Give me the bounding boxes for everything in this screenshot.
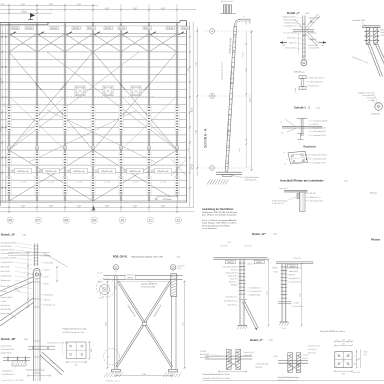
frame detail callout circles [97,273,120,365]
svg-text:240: 240 [91,349,93,352]
Detail I post and beam junction [293,14,320,60]
svg-text:Windverband in Achse C/07–C/08: Windverband in Achse C/07–C/08 [132,256,164,259]
svg-text:Rd20: Rd20 [274,356,278,358]
svg-text:2.49: 2.49 [188,68,190,71]
Detail III labels [1,345,14,355]
svg-text:„II“: „II“ [107,357,110,359]
svg-text:Detail „V“: Detail „V“ [250,338,264,342]
Detail II right side labels [41,255,56,307]
svg-text:Leimbinder: Leimbinder [177,266,185,268]
svg-text:kräfte (Sog) n. DIN 1055 zu si: kräfte (Sog) n. DIN 1055 zu sichern, [202,222,237,225]
right dimension chains of plan [188,22,193,207]
section A-A title [204,128,208,148]
svg-text:2 Schrauben M12: 2 Schrauben M12 [283,20,296,22]
svg-text:IPE160: IPE160 [242,52,244,57]
svg-text:IPE 160: IPE 160 [313,124,319,126]
svg-text:Zugstab Rd 20: Zugstab Rd 20 [1,275,12,278]
svg-text:Kontermutter: Kontermutter [1,279,11,282]
Detail I axis bubble 01 [301,57,307,66]
svg-text:300: 300 [342,373,345,375]
svg-text:„I“: „I“ [102,288,104,290]
svg-text:41: 41 [176,147,178,149]
svg-text:Hammerkopf-: Hammerkopf- [309,44,320,47]
svg-text:Kn. 06: Kn. 06 [98,273,103,275]
svg-text:Anschluß Pfetten am Leimbinder: Anschluß Pfetten am Leimbinder [280,179,325,183]
svg-text:IPE270 n.St: IPE270 n.St [158,170,169,173]
frame diagonal tension rods [116,281,173,368]
svg-text:M20 DIN 1480: M20 DIN 1480 [1,309,11,311]
svg-text:IPE270 n.St: IPE270 n.St [102,170,113,173]
svg-text:06: 06 [8,219,12,223]
svg-text:41.60: 41.60 [21,11,27,13]
glulam bracing connection detail top right [352,19,381,44]
svg-text:a = 2.49: a = 2.49 [132,182,138,184]
sheet border line bottom right [203,380,384,382]
svg-text:Leimbinder: Leimbinder [309,32,318,35]
panel member label boxes horizontal [12,168,172,173]
svg-text:Schnitt 1 - 1: Schnitt 1 - 1 [294,106,310,110]
svg-text:12: 12 [176,219,180,223]
svg-text:Lasche 90×10: Lasche 90×10 [1,345,12,348]
svg-text:IPE160: IPE160 [167,28,173,30]
svg-text:4 Schrauben M12: 4 Schrauben M12 [1,252,14,255]
svg-text:90×10: 90×10 [44,276,49,279]
Fusspunkte bottom dimension rows [334,370,360,375]
svg-text:25.29: 25.29 [192,108,194,112]
bottom dimension lines of plan [0,205,194,212]
svg-text:Durchlaufwirkung der Pfetten: Durchlaufwirkung der Pfetten [202,224,231,227]
Detail III lower labels [2,364,23,383]
Fusspunkte caption [320,330,345,333]
svg-text:Detail „II“: Detail „II“ [1,233,16,237]
svg-text:Ø 18: Ø 18 [364,355,367,357]
svg-text:240: 240 [75,364,78,366]
frame top chord [104,275,183,288]
Detail V left labels [200,351,254,380]
svg-text:2 Schr. M16: 2 Schr. M16 [244,355,253,357]
svg-text:±0.00: ±0.00 [282,328,286,330]
svg-text:b: b [284,152,285,154]
svg-text:IPE 160: IPE 160 [310,193,316,195]
Detail I section a-a sub-detail [294,71,324,94]
svg-text:IPE 160: IPE 160 [231,270,237,272]
top purlin label boxes [11,26,189,30]
svg-text:RSt700: RSt700 [256,261,262,264]
frame right dimension [183,281,186,370]
Detail IV right column IPE280 [281,264,288,323]
svg-text:Lasche 243×90×10: Lasche 243×90×10 [141,283,157,286]
svg-text:IPE270 n.St: IPE270 n.St [46,170,57,173]
svg-text:a: a [295,92,296,94]
Anschluss Pfetten am Leimbinder title [280,179,348,183]
section A-A member annotation text [221,37,234,139]
section A-A lower grid bubble [189,165,193,169]
Detail II dimension ticks [27,252,29,309]
svg-text:4 Schrauben M16: 4 Schrauben M16 [141,286,155,288]
section A-A left dimension line [195,27,198,176]
svg-text:C: C [211,166,213,170]
Detail I leader labels right [309,18,320,50]
svg-text:2.49: 2.49 [188,148,190,151]
svg-text:3.47: 3.47 [106,322,108,326]
Detail IV left column base [237,326,247,330]
svg-text:Winkel 70×7 m.: Winkel 70×7 m. [310,196,322,199]
Detail IV left label stack [222,267,240,307]
Fusspunkt caption and base plate detail [63,328,93,367]
svg-text:IPE160: IPE160 [105,28,111,30]
Detail I load arrows [280,41,326,47]
svg-text:7.10: 7.10 [195,130,197,133]
svg-text:1:10: 1:10 [269,340,273,342]
svg-text:Leimbinder 12/96: Leimbinder 12/96 [352,19,365,22]
svg-text:Fußplatte 240×240×12 m. 4 An-: Fußplatte 240×240×12 m. 4 An- [63,328,87,331]
svg-text:Bolzen Rd20: Bolzen Rd20 [200,354,209,356]
Detail II diagonal rods [0,277,33,326]
Detail II pin connection [30,268,44,281]
Detail IV middle dimension line [267,259,270,327]
north arrow symbol [28,13,35,19]
right edge clipped labels [381,29,384,38]
svg-text:07: 07 [36,219,40,223]
svg-text:Blech d=30: Blech d=30 [353,372,361,374]
Detail IV left roof lines [214,242,268,264]
Schnitt 1-1 title [294,106,320,110]
svg-text:4 Schrauben M16: 4 Schrauben M16 [362,95,375,97]
svg-text:41: 41 [92,147,94,149]
svg-text:a = 2.49: a = 2.49 [20,182,26,184]
svg-text:bzw. 35/207, 1% Gefälle vorhan: bzw. 35/207, 1% Gefälle vorhanden [202,214,237,217]
Detail IV left diagonal brace [239,300,258,331]
svg-text:Blech 120×220×10: Blech 120×220×10 [313,154,327,157]
svg-text:C: C [191,166,193,169]
svg-text:41: 41 [148,147,150,149]
frame left column [115,276,172,370]
svg-text:Schweißn. a=4: Schweißn. a=4 [44,305,55,307]
svg-text:IPE160: IPE160 [73,28,79,30]
Detail III beam with anchor block [3,356,30,366]
svg-text:siehe Detail „II“: siehe Detail „II“ [245,178,257,181]
svg-text:2 U 160: 2 U 160 [293,303,299,305]
svg-text:Bindergang 1 ±7/1 m: Bindergang 1 ±7/1 m [221,62,224,80]
svg-text:Rd 95: Rd 95 [98,282,103,284]
Draufsicht title [304,146,317,149]
svg-text:Lasche: Lasche [303,354,308,356]
svg-text:Detail „I“: Detail „I“ [287,11,300,15]
svg-text:300: 300 [359,358,361,361]
Detail III side connection drawing [26,342,68,377]
svg-text:Detail „IV“: Detail „IV“ [252,232,266,236]
svg-text:IPE160: IPE160 [119,28,125,30]
svg-text:Lasche: Lasche [44,270,50,272]
frame base plates and foundation [104,370,181,383]
Detail IV right labels [272,267,301,284]
svg-text:IPE160: IPE160 [144,28,150,30]
svg-text:1:10: 1:10 [316,107,320,109]
svg-text:Knotenblech: Knotenblech [44,294,53,297]
skylight boxes [60,86,155,97]
svg-text:Blech 160×160×12: Blech 160×160×12 [310,77,324,80]
diagonal brace labels top bay [11,32,185,35]
svg-text:Bolzen Ø30: Bolzen Ø30 [1,267,10,269]
svg-text:Detail „III“: Detail „III“ [1,337,16,341]
svg-text:5.81: 5.81 [142,374,146,376]
svg-text:08: 08 [64,219,68,223]
svg-text:A: A [211,29,213,33]
svg-text:IPE 160 Pfette: IPE 160 Pfette [1,245,12,248]
svg-text:Pfosten: Pfosten [371,239,381,242]
top bay X bracing [0,34,187,52]
svg-text:01: 01 [302,61,306,65]
svg-text:4 Schrauben M16: 4 Schrauben M16 [313,158,326,161]
POS Windverband title [113,256,180,259]
windverband label box top right of plan [155,197,178,201]
svg-text:Dach u. Pfetten sind gegen Abh: Dach u. Pfetten sind gegen Abhebe- [202,219,237,222]
svg-text:150: 150 [355,363,357,366]
section A-A right dimension line [239,30,253,171]
svg-text:a = 2.49: a = 2.49 [48,182,54,184]
svg-text:2 Schrauben M12: 2 Schrauben M12 [310,199,323,202]
svg-text:4 Schrauben M12: 4 Schrauben M12 [310,81,323,84]
Detail V title [250,338,273,342]
svg-text:Kopfplatte 160×10: Kopfplatte 160×10 [1,249,15,252]
svg-text:Trapezblech 40/183: Trapezblech 40/183 [313,120,328,123]
svg-text:Fußpunkt Windverband quer,: Fußpunkt Windverband quer, [278,376,300,379]
svg-text:IPE160: IPE160 [272,268,277,270]
svg-text:12/96 n.St.: 12/96 n.St. [309,38,318,41]
svg-text:14.05: 14.05 [250,98,252,102]
svg-text:n. Stat. Pos. 4.2: n. Stat. Pos. 4.2 [272,202,284,205]
svg-text:Ausbildung der Dachfläche:: Ausbildung der Dachfläche: [202,208,234,211]
svg-text:5.81: 5.81 [246,138,248,141]
svg-text:2.49: 2.49 [1,78,3,81]
svg-text:schraube M16: schraube M16 [309,47,320,50]
plan outline left and right edges [0,22,186,205]
svg-text:1: 1 [299,142,300,144]
svg-text:Leimbinder 12/96: Leimbinder 12/96 [313,134,326,137]
Detail IV right roof lines [276,258,313,269]
svg-text:Knotenblech 240×240×12 m. 4 An: Knotenblech 240×240×12 m. 4 Anker [203,377,231,380]
svg-text:Bolzen: Bolzen [99,298,104,300]
svg-text:IPE160: IPE160 [182,28,188,30]
svg-text:Rd 20: Rd 20 [44,284,49,286]
Detail IV left column IPE280 [239,259,246,325]
svg-text:75: 75 [336,340,338,342]
right edge clipped heading [370,192,381,242]
Detail IV right far dimension line [300,263,303,327]
svg-text:ker M16, Knotenblech n. Stat.: ker M16, Knotenblech n. Stat. [63,331,86,334]
Detail I leader labels left [283,16,302,50]
svg-text:a = 2.49: a = 2.49 [104,182,110,184]
svg-text:Fußpunkte IPE280 am ±0.00 m: Fußpunkte IPE280 am ±0.00 m [320,330,345,333]
Detail IV right column base [279,322,289,330]
svg-text:IPE160: IPE160 [12,28,18,30]
svg-text:IPE 280: IPE 280 [289,275,295,277]
Detail IV left right-side labels [247,263,262,297]
svg-text:2.76: 2.76 [267,291,269,294]
svg-text:2 Laschen 90×10: 2 Laschen 90×10 [1,261,14,264]
survey marker under axis 09 [92,206,95,210]
labels between Detail V and Fusspunkte [308,345,321,355]
svg-text:09: 09 [92,219,96,223]
svg-text:10: 10 [120,219,124,223]
svg-text:75: 75 [355,355,357,357]
Fusspunkte right dimension column [355,350,369,369]
frame axis bubbles 01 02 [113,265,185,276]
Detail V middle labels [256,364,269,370]
frame right glulam column hatched [171,274,177,370]
Draufsicht plate plan view [284,151,327,165]
svg-text:IPE270 n.St: IPE270 n.St [74,170,85,173]
left dimension chains of plan [1,25,7,202]
svg-text:IPE270 n.St: IPE270 n.St [130,170,141,173]
svg-text:Hülse Rd 95: Hülse Rd 95 [1,271,10,273]
svg-text:a = 2.49: a = 2.49 [76,182,82,184]
svg-text:POS. OG-V1: POS. OG-V1 [113,256,128,259]
svg-text:Trapezblech 40/183: Trapezblech 40/183 [222,267,236,269]
purlin lines [0,37,186,196]
svg-text:Spannschloß: Spannschloß [1,305,10,307]
svg-text:300: 300 [342,343,345,345]
bracing rods to lower right [352,44,384,76]
Detail III title [1,337,29,341]
Anschluss Pfetten drawing [272,188,323,212]
svg-text:Knotenblech 240×12: Knotenblech 240×12 [1,257,17,260]
svg-text:41: 41 [8,147,10,149]
rod sleeve circle detail [98,282,110,300]
svg-text:Pfosten 16/16: Pfosten 16/16 [1,285,11,288]
Detail V left drawing [205,349,252,369]
svg-text:5.81: 5.81 [246,68,248,71]
svg-text:Zugband Rd20: Zugband Rd20 [309,18,320,20]
svg-text:B: B [211,94,213,98]
svg-text:DIN 7990: DIN 7990 [256,367,263,369]
svg-text:IPE160: IPE160 [51,28,57,30]
svg-text:IPE160: IPE160 [26,28,32,30]
plan outline top edge [0,21,187,26]
svg-text:6.45: 6.45 [195,62,197,65]
roof plan top dimension lines [0,4,196,11]
Detail II leader labels left column [1,242,33,294]
svg-text:1:10: 1:10 [273,234,277,236]
svg-text:4 Schr. M12: 4 Schr. M12 [287,38,296,40]
Detail II post member [34,268,40,381]
roof plan second dimension line with overall length [0,11,52,14]
Detail V right drawing [274,353,309,382]
Schnitt 1-1 purlin on glulam drawing [281,119,328,144]
kopfplatte mini detail right edge [358,92,383,116]
svg-text:ist zu beachten.: ist zu beachten. [202,227,218,230]
svg-text:Trapezblech 40/183: Trapezblech 40/183 [1,242,16,245]
svg-text:Schnitt a-a: Schnitt a-a [294,71,305,74]
svg-text:41: 41 [64,147,66,149]
section A-A column base and foundation [207,172,259,184]
Detail II extra left labels [1,297,13,315]
main wind bracing diagonals [9,52,187,201]
svg-text:OG3 Windv.: OG3 Windv. [163,199,173,201]
column axis numbers 06 to 12 [7,217,181,223]
svg-text:4 Schrauben M12: 4 Schrauben M12 [313,130,326,133]
Detail IV title [252,232,277,236]
svg-text:Steife 60×10: Steife 60×10 [310,85,320,88]
section A-A roof hatch block at top [220,4,236,13]
svg-text:2 Schr. M16: 2 Schr. M16 [44,262,53,265]
svg-text:b: b [285,164,286,166]
svg-text:IPE270 n.St: IPE270 n.St [18,170,29,173]
svg-text:Kopfplatte 160×10: Kopfplatte 160×10 [313,127,327,130]
svg-text:2x U160: 2x U160 [200,351,206,353]
svg-text:Abstützg.: Abstützg. [370,192,378,195]
Detail II title [1,233,27,237]
secondary panel labels [20,182,166,184]
plan column gridlines [9,23,177,201]
Detail IV right lower beam stub [278,302,303,308]
Ausbildung der Dachflaeche text block [202,208,237,230]
svg-text:RSt700: RSt700 [227,261,233,264]
svg-text:41: 41 [120,147,122,149]
svg-text:2 Schr.: 2 Schr. [381,35,384,37]
svg-text:Zugstab Rd 20: Zugstab Rd 20 [1,352,12,355]
svg-text:Leimbinder 12/96: Leimbinder 12/96 [313,162,326,165]
svg-text:3.47: 3.47 [183,322,185,325]
gridline member label strips vertical [7,106,179,195]
Fusspunkte base plate plan [335,352,352,368]
svg-text:IPE160: IPE160 [127,277,133,279]
svg-text:12.4: 12.4 [4,103,6,106]
svg-text:Zugband Rd20: Zugband Rd20 [250,295,261,297]
svg-text:IPE160: IPE160 [88,28,94,30]
section A-A eaves arc [221,0,250,26]
svg-text:41: 41 [36,147,38,149]
svg-text:150: 150 [342,340,345,342]
svg-text:2 Schrauben M16: 2 Schrauben M16 [256,364,269,366]
Detail II upper connection stem [8,244,68,283]
Fusspunkte top dimension rows [334,340,353,347]
svg-text:12/96: 12/96 [177,268,181,270]
frame left dimension [106,281,109,370]
plan gridline extensions above and below [9,4,177,212]
svg-text:IPE 280: IPE 280 [231,285,237,287]
svg-text:11: 11 [148,219,152,223]
plan outline bottom edge [0,201,187,202]
svg-text:75: 75 [349,340,351,342]
svg-text:2.49: 2.49 [1,128,3,131]
svg-text:16/16: 16/16 [239,148,241,152]
svg-text:n. Statik: n. Statik [309,21,315,24]
svg-text:Trapezblech: Trapezblech [279,188,288,190]
svg-text:4 Schr. M12: 4 Schr. M12 [228,276,237,278]
svg-text:Draufsicht: Draufsicht [304,146,317,149]
svg-text:240×12: 240×12 [44,299,50,302]
svg-text:60: 60 [281,133,283,135]
svg-text:Zd: Zd [322,45,324,47]
svg-text:Diagonale Rd 20: Diagonale Rd 20 [1,297,13,299]
svg-text:Zd: Zd [283,45,285,47]
svg-text:blech 12: blech 12 [381,32,384,34]
svg-text:1:25: 1:25 [177,256,180,258]
svg-text:Fußpunkt Windverband Pos. OG-V: Fußpunkt Windverband Pos. OG-V1 [203,373,230,376]
svg-text:Stahltrapez TRP 40/183 d=0.88: Stahltrapez TRP 40/183 d=0.88 mm [202,211,237,214]
svg-text:2.49: 2.49 [227,242,230,244]
svg-text:Schnitt A - A: Schnitt A - A [204,128,208,148]
section A-A glulam column member [225,27,236,172]
svg-text:a = 2.49: a = 2.49 [160,182,166,184]
Detail I title [287,11,310,15]
svg-text:Schnitt b-b: Schnitt b-b [372,113,380,116]
svg-text:Fußpunkt Pfosten: Fußpunkt Pfosten [245,176,259,179]
section A-A grid bubbles A B C [204,29,252,171]
svg-text:29.82: 29.82 [90,210,96,212]
svg-text:2 Schrauben M16: 2 Schrauben M16 [1,348,14,351]
